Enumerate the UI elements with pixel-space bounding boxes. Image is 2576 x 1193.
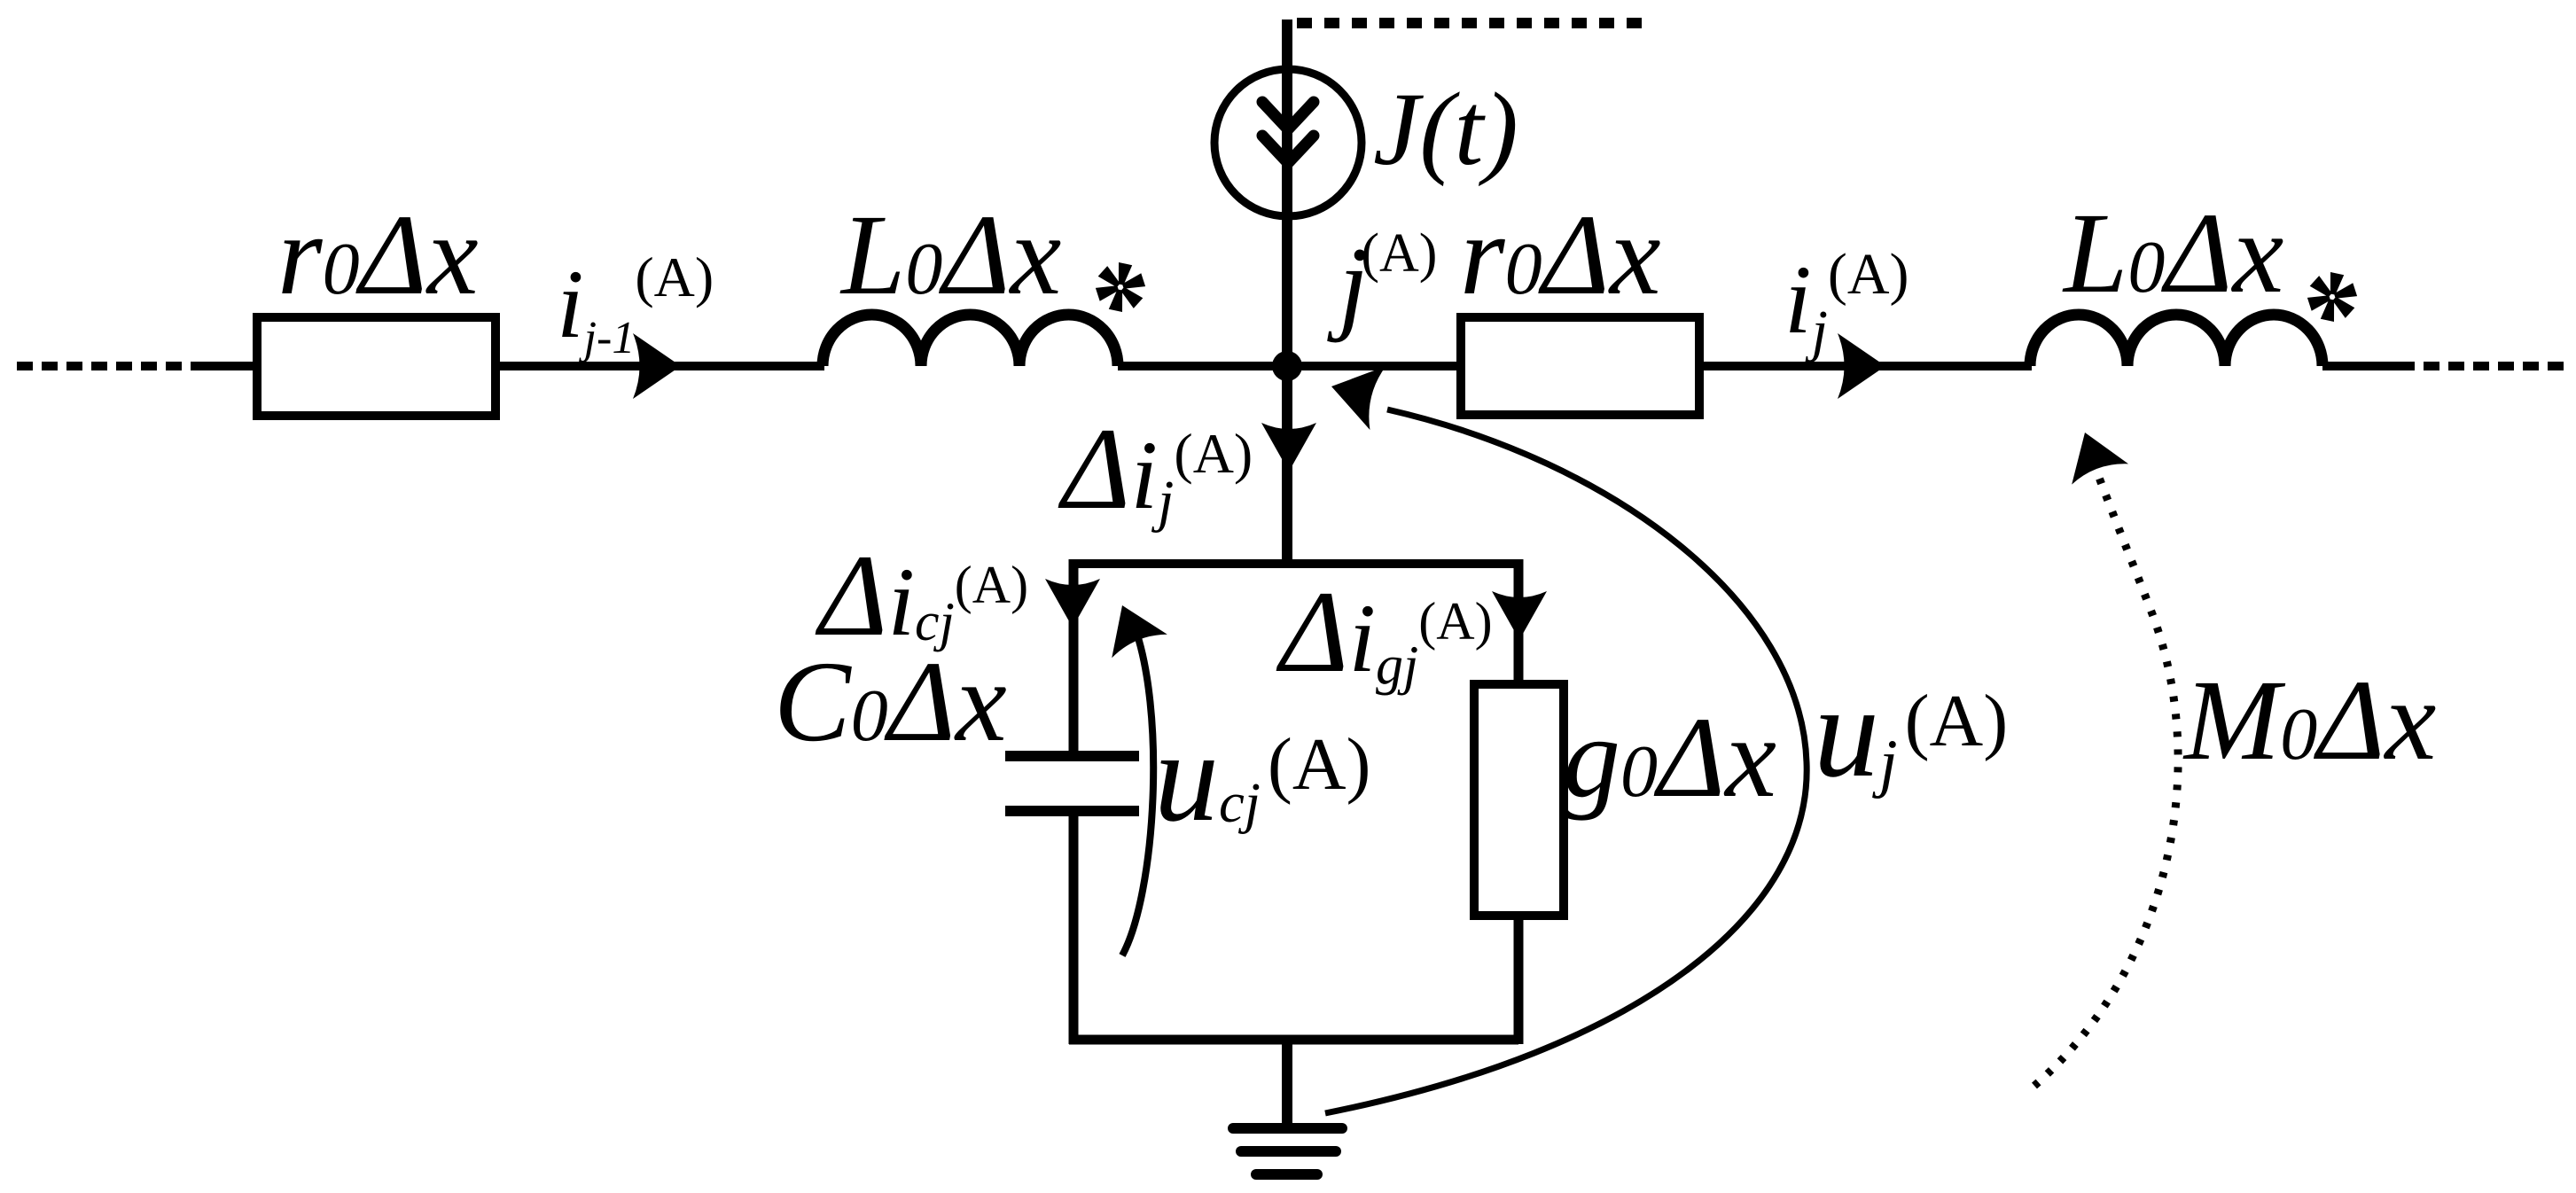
arrowhead current delta i_cj: [1045, 579, 1100, 628]
voltage arrow u_j: [1325, 409, 1807, 1113]
svg-text:r0Δx: r0Δx: [1460, 191, 1661, 319]
polarity mark asterisk right: [2307, 272, 2357, 322]
wire right solid tail: [2322, 362, 2399, 370]
svg-text:J(t): J(t): [1373, 71, 1518, 187]
current source arrow chevrons: [1262, 102, 1314, 163]
wire shunt bottom rail: [1069, 1035, 1518, 1045]
wire between left resistor and left inductor: [500, 362, 824, 370]
wire left dashed lead-in: [17, 362, 206, 370]
capacitor C0dx plates: [1005, 751, 1139, 761]
svg-text:g0Δx: g0Δx: [1563, 694, 1776, 822]
arrowhead shunt current delta i_j: [1261, 423, 1316, 472]
wire inductor to node j: [1118, 362, 1456, 370]
polarity mark asterisk left: [1096, 262, 1145, 312]
inductor L0dx left: [823, 315, 1118, 366]
svg-text:Δigj(A): Δigj(A): [1276, 566, 1493, 697]
wire top dashed stub: [1297, 18, 1647, 28]
svg-text:r0Δx: r0Δx: [277, 191, 479, 319]
inductor L0dx right: [2030, 315, 2322, 366]
wire vertical through node and source: [1282, 19, 1292, 568]
svg-text:C0Δx: C0Δx: [774, 638, 1007, 766]
wire capacitor branch upper: [1069, 559, 1079, 752]
svg-text:Δij(A): Δij(A): [1058, 403, 1253, 534]
wire capacitor branch lower: [1069, 811, 1079, 1044]
wire ground stem: [1282, 1040, 1292, 1128]
wire conductance branch upper: [1514, 559, 1524, 684]
resistor g0dx vertical: [1474, 684, 1564, 916]
wire shunt top rail: [1069, 559, 1518, 568]
svg-text:ucj(A): ucj(A): [1154, 705, 1371, 848]
wire conductance branch lower: [1514, 916, 1524, 1044]
wire right resistor to right inductor: [1704, 362, 2032, 370]
arrowhead current delta i_gj: [1492, 591, 1547, 640]
svg-text:uj(A): uj(A): [1814, 659, 2008, 805]
svg-text:j(A): j(A): [1327, 223, 1437, 343]
resistor r0dx right: [1461, 317, 1699, 415]
voltage arrow u_cj: [1122, 622, 1153, 955]
node j dot: [1272, 351, 1302, 381]
wire vertical inside source circle: [1282, 71, 1292, 217]
wire right dashed lead-out: [2399, 362, 2564, 370]
svg-text:M0Δx: M0Δx: [2182, 657, 2436, 784]
arrowhead current i_j-1: [633, 333, 681, 399]
wire left solid to resistor: [199, 362, 254, 370]
svg-text:ij-1(A): ij-1(A): [557, 246, 714, 363]
svg-text:L0Δx: L0Δx: [839, 191, 1061, 319]
ground: [1233, 1123, 1342, 1134]
svg-text:L0Δx: L0Δx: [2062, 190, 2283, 317]
current source J(t) circle: [1214, 69, 1362, 216]
arrowhead current i_j: [1838, 333, 1885, 399]
mutual inductance arrow M0dx dotted: [2034, 439, 2178, 1086]
resistor r0dx left: [257, 317, 496, 416]
